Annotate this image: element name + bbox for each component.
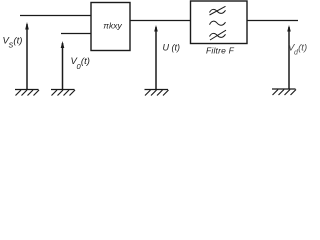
- wire multiplier output to filter: [130, 20, 191, 22]
- voltage arrow Vs vertical wire: [26, 24, 28, 89]
- arrowhead Vd: [287, 25, 291, 32]
- wire filter output: [247, 20, 298, 22]
- ground G4: [272, 89, 296, 95]
- filter box Filtre F: [191, 1, 248, 44]
- arrowhead V0: [61, 41, 65, 48]
- ground G2: [51, 90, 75, 96]
- wire second input to multiplier: [61, 33, 91, 35]
- voltage arrow Vd vertical wire: [288, 27, 290, 89]
- ground G3: [145, 90, 169, 96]
- arrowhead U: [154, 25, 158, 32]
- svg-text:U (t): U (t): [163, 43, 181, 53]
- filter symbol crossed sine top: [210, 6, 226, 15]
- filter symbol plain sine middle: [210, 21, 226, 25]
- voltage arrow V0 vertical wire: [62, 43, 64, 89]
- filter symbol crossed sine bottom: [210, 30, 227, 40]
- arrowhead Vs: [25, 22, 29, 30]
- wire top input to multiplier: [20, 15, 91, 17]
- multiplier box U1: [91, 3, 130, 51]
- voltage arrow U vertical wire: [155, 27, 157, 89]
- ground G1: [15, 90, 39, 96]
- svg-text:Filtre F: Filtre F: [206, 46, 235, 56]
- svg-text:πkxy: πkxy: [103, 21, 122, 31]
